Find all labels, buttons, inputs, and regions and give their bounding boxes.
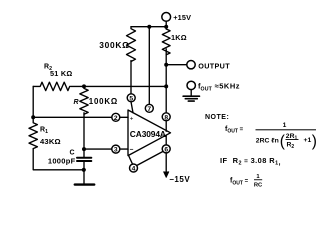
pin 5 circle — [127, 94, 135, 102]
wire pin3 node to capacitor — [83, 149, 85, 157]
svg-text:): ) — [312, 133, 317, 150]
terminal fOUT — [187, 81, 195, 89]
svg-text:43KΩ: 43KΩ — [40, 137, 61, 146]
note formula inner bar — [286, 138, 299, 141]
pin 3 circle — [112, 145, 120, 153]
resistor R 100K body — [80, 86, 88, 114]
svg-text:RC: RC — [254, 182, 263, 187]
resistor 300K body — [127, 27, 136, 62]
wire pin3 line — [84, 148, 128, 150]
junction dot output node — [164, 63, 168, 67]
svg-text:1000pF: 1000pF — [48, 156, 76, 165]
svg-text:6: 6 — [164, 146, 168, 153]
svg-text:R: R — [73, 99, 78, 106]
svg-text:51 KΩ: 51 KΩ — [50, 69, 73, 78]
pin 7 circle — [145, 104, 153, 112]
wire 300K to pin5 — [130, 61, 132, 95]
resistor 1K body — [162, 29, 170, 55]
-15V arrow — [164, 172, 169, 178]
wire top rail +15V — [131, 26, 166, 28]
svg-text:300KΩ: 300KΩ — [99, 40, 129, 50]
wire pin2 line — [33, 116, 128, 118]
svg-text:1: 1 — [283, 122, 287, 129]
junction dot C-ground — [82, 168, 86, 172]
wire 1K to output node and down through pin8 to triangle — [165, 49, 167, 132]
wire R bottom to pin3 node — [83, 113, 85, 149]
wire R1 bottom to ground node — [33, 149, 84, 170]
wire pin7 drop — [148, 27, 150, 105]
junction dot R-C-pin3 — [82, 147, 86, 151]
pin 8 circle — [162, 113, 170, 121]
pin 6 circle — [162, 145, 170, 153]
wire pin5 neck to triangle — [131, 102, 133, 113]
pin 4 circle — [130, 164, 138, 172]
junction dot rail/pin7 — [147, 25, 151, 29]
pin 2 circle — [112, 113, 120, 121]
terminal +15V — [162, 13, 171, 22]
wire pin4 to pin6 node — [137, 152, 163, 166]
svg-text:CA3094A: CA3094A — [130, 129, 166, 139]
svg-text:100KΩ: 100KΩ — [89, 97, 118, 106]
wire pin6 line through apex down to -15V — [165, 135, 167, 172]
junction dot R2-R1-pin2 — [31, 115, 35, 119]
svg-text:−15V: −15V — [169, 175, 190, 184]
svg-text:OUTPUT: OUTPUT — [198, 61, 230, 70]
junction dot feedback-output — [164, 84, 168, 88]
terminal OUTPUT — [187, 60, 195, 68]
capacitor C plates — [77, 157, 91, 159]
resistor R1 body — [29, 117, 37, 148]
wire feedback line y=86.4 — [71, 85, 167, 87]
svg-text:5: 5 — [129, 95, 133, 102]
svg-text:+1: +1 — [304, 137, 312, 144]
svg-text:+15V: +15V — [173, 13, 191, 22]
note formula main bar — [256, 129, 317, 130]
wire R2 left drop — [32, 86, 34, 117]
svg-text:4: 4 — [132, 166, 136, 173]
svg-text:+: + — [130, 116, 134, 123]
op-amp U1 triangle — [128, 110, 171, 156]
svg-text:2RC ℓn: 2RC ℓn — [256, 137, 279, 144]
wire pin4 neck from triangle corner — [129, 156, 133, 164]
svg-text:−: − — [130, 147, 134, 154]
wire capacitor to ground — [83, 162, 85, 184]
svg-text:3: 3 — [114, 147, 118, 154]
svg-text:2: 2 — [114, 115, 118, 122]
ground (below C) — [75, 183, 94, 185]
wire output node to OUTPUT terminal — [166, 64, 187, 66]
svg-text:1KΩ: 1KΩ — [171, 33, 187, 42]
svg-text:8: 8 — [164, 114, 168, 121]
resistor R2 body — [33, 82, 70, 90]
wire fOUT stub — [190, 90, 192, 96]
svg-text:NOTE:: NOTE: — [205, 114, 229, 121]
svg-text:7: 7 — [147, 106, 151, 113]
junction dot +15V node — [164, 25, 168, 29]
wire +15V stub — [165, 21, 167, 29]
ground (below fOUT) — [183, 96, 199, 101]
junction dot R2-R node — [82, 84, 86, 88]
